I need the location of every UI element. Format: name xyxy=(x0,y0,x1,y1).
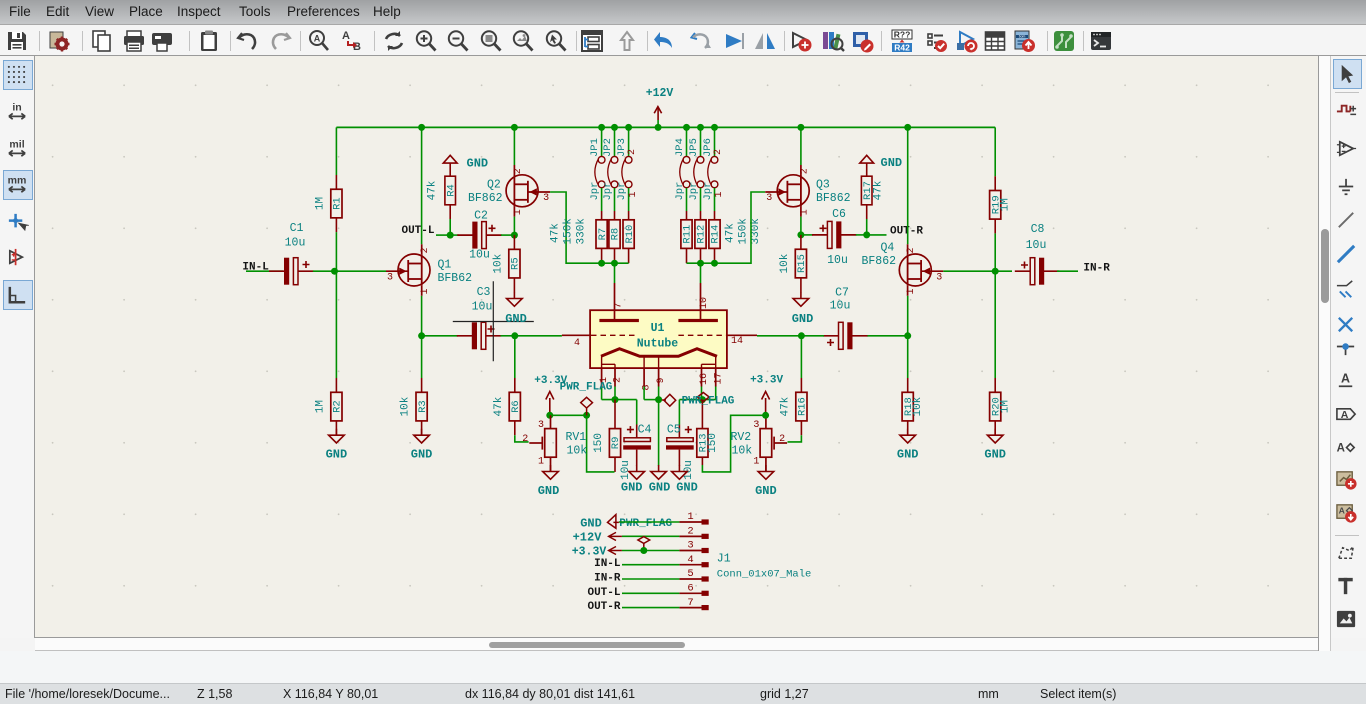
svg-text:2: 2 xyxy=(522,434,528,445)
wire to C2 xyxy=(450,234,458,236)
svg-text:3: 3 xyxy=(766,193,772,204)
svg-text:5: 5 xyxy=(687,568,693,580)
junction xyxy=(511,232,518,239)
wire to gnd xyxy=(658,400,660,466)
svg-text:4: 4 xyxy=(687,554,693,566)
svg-text:GND: GND xyxy=(621,481,643,495)
svg-text:R1: R1 xyxy=(332,197,344,210)
cursor crosshair xyxy=(453,281,534,361)
svg-text:IN-L: IN-L xyxy=(594,558,621,570)
wire rail to JP2 xyxy=(614,127,616,156)
svg-text:9: 9 xyxy=(656,377,667,383)
resistor R3 xyxy=(400,378,429,435)
junction xyxy=(583,412,590,419)
svg-text:Q3: Q3 xyxy=(816,179,830,192)
wire JP6 to resistor xyxy=(714,188,716,211)
transistor Q3 xyxy=(765,165,850,217)
jumper JP6 xyxy=(702,138,718,200)
svg-text:10k: 10k xyxy=(492,253,504,273)
svg-text:OUT-R: OUT-R xyxy=(890,226,923,238)
ground xyxy=(649,465,671,495)
wire to R3 xyxy=(421,336,423,378)
svg-text:RV1: RV1 xyxy=(566,431,587,444)
svg-text:GND: GND xyxy=(326,448,348,462)
svg-text:3: 3 xyxy=(936,272,942,283)
junction xyxy=(904,332,911,339)
svg-text:GND: GND xyxy=(538,484,560,498)
junction xyxy=(611,124,618,131)
svg-text:BF862: BF862 xyxy=(816,192,851,205)
connector J1 Conn_01x07_Male xyxy=(679,511,811,610)
svg-text:47k: 47k xyxy=(550,223,562,243)
junction xyxy=(762,412,769,419)
junction xyxy=(655,124,662,131)
wire to C8 xyxy=(995,270,1012,272)
svg-text:1: 1 xyxy=(628,191,639,197)
svg-text:Q2: Q2 xyxy=(487,179,501,192)
wire JP3 to resistor xyxy=(628,188,630,211)
resistor R18 xyxy=(902,378,924,435)
svg-text:JP5: JP5 xyxy=(688,138,700,157)
svg-text:+3.3V: +3.3V xyxy=(750,374,783,386)
wire JP1 to resistor xyxy=(601,188,603,211)
wire Q3 source down xyxy=(800,217,802,235)
svg-text:C1: C1 xyxy=(290,222,304,235)
capacitor C6 xyxy=(812,208,856,267)
svg-text:R10: R10 xyxy=(624,225,636,244)
svg-text:10k: 10k xyxy=(567,445,588,458)
resistor R7 xyxy=(596,211,609,263)
svg-text:1: 1 xyxy=(753,457,759,468)
transistor Q4 xyxy=(862,242,944,296)
wire Q2 source down xyxy=(513,217,515,236)
wire rail to Q4 xyxy=(907,127,909,244)
svg-text:JP2: JP2 xyxy=(602,138,614,157)
svg-text:C6: C6 xyxy=(832,208,846,221)
ground xyxy=(755,465,777,498)
wire xyxy=(801,335,824,337)
svg-text:A: A xyxy=(1341,409,1349,421)
svg-text:R9: R9 xyxy=(610,437,622,450)
power flag PWR_FLAG xyxy=(662,394,676,406)
wire bus to U1 pin10 xyxy=(700,263,702,283)
svg-text:+12V: +12V xyxy=(646,87,674,100)
wire pin1 down xyxy=(601,387,603,400)
wire to U1 pin4 xyxy=(515,335,562,337)
wire JP bus left xyxy=(602,262,629,264)
svg-text:150k: 150k xyxy=(738,218,750,245)
svg-text:1: 1 xyxy=(714,191,725,197)
svg-text:C8: C8 xyxy=(1031,223,1045,236)
wire pin9 down xyxy=(658,387,660,400)
wire rail to Q1 drain xyxy=(421,127,423,244)
junction xyxy=(418,124,425,131)
svg-text:A: A xyxy=(1337,442,1345,454)
wire xyxy=(644,399,659,401)
wire JP5 to resistor xyxy=(700,188,702,211)
resistor R16 xyxy=(779,378,808,435)
triode U1 Nutube xyxy=(562,283,757,391)
svg-text:GND: GND xyxy=(984,448,1006,462)
wire OUT-L xyxy=(622,592,679,594)
svg-text:1M: 1M xyxy=(1000,198,1012,211)
wire JP2 to resistor xyxy=(614,188,616,211)
svg-text:R11: R11 xyxy=(682,225,694,244)
wire rail to JP3 xyxy=(628,127,630,156)
ground xyxy=(326,429,348,462)
junction xyxy=(640,547,647,554)
wire xyxy=(636,400,638,425)
transistor Q1 xyxy=(386,244,472,296)
wire R9 bottom xyxy=(587,415,615,472)
svg-text:2: 2 xyxy=(513,168,524,174)
wire pin1 xyxy=(619,521,680,523)
svg-text:JP1: JP1 xyxy=(589,138,601,157)
ground xyxy=(538,465,560,498)
resistor R12 xyxy=(695,211,708,263)
wire R4 to OUT-L node xyxy=(449,219,451,235)
junction xyxy=(546,412,553,419)
svg-text:47k: 47k xyxy=(427,180,439,200)
junction xyxy=(697,124,704,131)
svg-text:10k: 10k xyxy=(732,445,753,458)
junction xyxy=(598,124,605,131)
wire pin2 down xyxy=(614,387,616,400)
ground xyxy=(672,465,698,495)
junction xyxy=(699,396,706,403)
svg-text:R15: R15 xyxy=(796,254,808,273)
svg-text:Jpr: Jpr xyxy=(602,182,614,201)
wire R13 to +3.3V xyxy=(702,415,765,472)
wire pin8 down xyxy=(643,387,645,400)
wire xyxy=(550,414,587,416)
svg-text:R42: R42 xyxy=(894,43,910,53)
svg-text:C4: C4 xyxy=(638,423,652,436)
power flag PWR_FLAG xyxy=(560,382,613,416)
wire Q2 gate to JP bus xyxy=(550,192,602,263)
wire rail to R19 xyxy=(994,127,996,176)
junction xyxy=(511,124,518,131)
resistor R6 xyxy=(493,378,522,435)
svg-text:GND: GND xyxy=(411,448,433,462)
wire Q1 source down xyxy=(421,296,423,336)
svg-text:2: 2 xyxy=(713,149,724,155)
power +3.3V xyxy=(534,375,567,416)
junction xyxy=(331,268,338,275)
svg-text:OUT-R: OUT-R xyxy=(587,601,620,613)
junction xyxy=(611,260,618,267)
wire pins to C4 xyxy=(602,399,637,401)
svg-text:in: in xyxy=(12,102,21,114)
power label +12V xyxy=(573,530,622,544)
svg-text:R2: R2 xyxy=(332,400,344,413)
wire R17 down xyxy=(866,219,868,235)
ground xyxy=(505,292,527,326)
svg-text:R16: R16 xyxy=(797,397,809,416)
svg-text:2: 2 xyxy=(627,149,638,155)
jumper JP2 xyxy=(602,138,618,200)
capacitor C2 xyxy=(457,209,501,261)
svg-text:JP4: JP4 xyxy=(674,138,686,157)
svg-text:3: 3 xyxy=(687,540,693,552)
junction xyxy=(697,260,704,267)
resistor R14 xyxy=(709,211,722,263)
junction xyxy=(511,332,518,339)
svg-text:1: 1 xyxy=(513,209,524,215)
svg-text:R??: R?? xyxy=(894,30,911,40)
svg-text:47k: 47k xyxy=(872,180,884,200)
wire to R18 xyxy=(907,336,909,378)
svg-text:IN-R: IN-R xyxy=(1083,262,1110,274)
svg-text:PWR_FLAG: PWR_FLAG xyxy=(682,395,735,407)
wire to Q1 gate xyxy=(335,270,387,272)
svg-text:3: 3 xyxy=(753,420,759,431)
junction xyxy=(992,268,999,275)
resistor R1 xyxy=(314,175,343,232)
capacitor C8 xyxy=(1015,223,1059,285)
svg-text:3: 3 xyxy=(543,193,549,204)
svg-text:A: A xyxy=(342,30,350,42)
junction xyxy=(625,124,632,131)
svg-text:3: 3 xyxy=(387,272,393,283)
wire Q4 gate xyxy=(943,270,995,272)
svg-text:IN-L: IN-L xyxy=(242,261,269,273)
wire xyxy=(501,234,514,236)
wire IN-L xyxy=(622,564,679,566)
resistor R8 xyxy=(609,211,622,263)
svg-text:GND: GND xyxy=(792,312,814,326)
svg-text:10u: 10u xyxy=(469,249,490,262)
svg-text:PWR_FLAG: PWR_FLAG xyxy=(560,382,613,394)
svg-text:4: 4 xyxy=(574,338,580,349)
svg-text:Jpr: Jpr xyxy=(589,182,601,201)
svg-text:10k: 10k xyxy=(400,396,412,416)
svg-text:R8: R8 xyxy=(610,228,622,241)
resistor R10 xyxy=(623,211,636,263)
svg-text:R6: R6 xyxy=(510,400,522,413)
potentiometer RV2 xyxy=(731,415,788,471)
svg-text:OUT-L: OUT-L xyxy=(587,587,620,599)
svg-text:10: 10 xyxy=(699,297,710,309)
wire IN-L stub xyxy=(246,270,283,272)
wire JP4 to resistor xyxy=(686,188,688,211)
svg-text:GND: GND xyxy=(755,484,777,498)
svg-text:Jpr: Jpr xyxy=(616,182,628,201)
wire to R20 xyxy=(994,271,996,378)
wire OUT-R stub xyxy=(867,234,887,236)
power flag PWR_FLAG xyxy=(682,393,735,408)
svg-text:3: 3 xyxy=(538,420,544,431)
wire rail to JP4 xyxy=(686,127,688,156)
svg-text:1: 1 xyxy=(687,511,693,523)
junction xyxy=(655,396,662,403)
svg-text:A: A xyxy=(1339,505,1345,515)
svg-text:R5: R5 xyxy=(510,257,522,270)
svg-text:1M: 1M xyxy=(314,400,326,413)
ground xyxy=(792,292,814,326)
wire xyxy=(313,270,335,272)
svg-text:1: 1 xyxy=(906,288,917,294)
svg-text:R7: R7 xyxy=(597,228,609,241)
junction xyxy=(711,124,718,131)
svg-text:BF862: BF862 xyxy=(862,255,897,268)
junction xyxy=(798,332,805,339)
wire +12V rail xyxy=(336,126,995,128)
jumper JP4 xyxy=(674,138,690,200)
svg-text:R14: R14 xyxy=(710,225,722,244)
svg-text:BFB62: BFB62 xyxy=(438,272,473,285)
wire to R6 xyxy=(514,336,516,378)
svg-text:10k: 10k xyxy=(912,396,924,416)
wire Q4 source down xyxy=(907,296,909,336)
svg-text:OUT-L: OUT-L xyxy=(401,225,434,237)
wire OUT-L stub xyxy=(436,234,450,236)
svg-text:Q4: Q4 xyxy=(881,242,895,255)
svg-text:+12V: +12V xyxy=(573,530,603,544)
jumper JP1 xyxy=(589,138,605,200)
wire rail to JP6 xyxy=(714,127,716,156)
svg-text:6: 6 xyxy=(687,583,693,595)
wire xyxy=(501,335,515,337)
svg-text:IN-R: IN-R xyxy=(594,573,621,585)
resistor R13 xyxy=(697,400,719,465)
wire to C6 xyxy=(801,234,813,236)
potentiometer RV1 xyxy=(522,415,587,471)
wire to C3 xyxy=(422,335,458,337)
wire OUT-R xyxy=(622,607,679,609)
svg-text:mil: mil xyxy=(9,139,24,151)
svg-text:Q1: Q1 xyxy=(438,259,452,272)
wire bus to U1 pin7 xyxy=(614,263,616,283)
svg-text:47k: 47k xyxy=(779,396,791,416)
svg-text:17: 17 xyxy=(713,372,724,384)
svg-text:J1: J1 xyxy=(717,553,731,566)
wire pins to C5 xyxy=(679,399,715,401)
junction xyxy=(598,260,605,267)
svg-text:R3: R3 xyxy=(417,400,429,413)
svg-text:GND: GND xyxy=(649,481,671,495)
svg-text:Conn_01x07_Male: Conn_01x07_Male xyxy=(717,569,812,581)
resistor R2 xyxy=(314,378,343,435)
svg-text:A: A xyxy=(1341,371,1350,385)
svg-text:10u: 10u xyxy=(827,254,848,267)
svg-text:GND: GND xyxy=(676,481,698,495)
svg-text:10u: 10u xyxy=(472,301,493,314)
svg-text:10k: 10k xyxy=(779,253,791,273)
svg-text:GND: GND xyxy=(580,516,602,530)
junction xyxy=(904,124,911,131)
svg-text:47k: 47k xyxy=(725,223,737,243)
svg-text:10u: 10u xyxy=(620,460,632,480)
junction xyxy=(447,232,454,239)
junction xyxy=(797,231,804,238)
wire C7 to U1 pin14 xyxy=(757,335,801,337)
svg-text:GND: GND xyxy=(881,156,903,170)
svg-text:47k: 47k xyxy=(493,396,505,416)
wire IN-R xyxy=(622,578,679,580)
svg-text:2: 2 xyxy=(613,377,624,383)
svg-text:bom: bom xyxy=(1019,35,1026,39)
wire rail to Q2 xyxy=(513,127,515,165)
resistor R5 xyxy=(492,235,521,292)
wire pin16 down xyxy=(701,387,703,400)
ground xyxy=(621,465,645,495)
junction xyxy=(711,260,718,267)
wire JP bus right xyxy=(687,192,766,263)
wire R16 to RV2 wiper xyxy=(788,435,802,442)
capacitor C7 xyxy=(823,286,867,349)
junction xyxy=(863,231,870,238)
svg-text:U1: U1 xyxy=(651,322,665,335)
svg-text:10u: 10u xyxy=(830,300,851,313)
svg-text:GND: GND xyxy=(897,448,919,462)
jumper JP3 xyxy=(616,138,632,200)
wire R1 to IN-L node xyxy=(335,232,337,271)
transistor Q2 xyxy=(468,165,550,217)
wire pin17 down xyxy=(715,387,717,400)
resistor R19 xyxy=(990,176,1012,233)
svg-text:2: 2 xyxy=(799,168,810,174)
svg-text:C3: C3 xyxy=(477,286,491,299)
wire to R16 xyxy=(800,336,802,378)
ground xyxy=(984,429,1006,462)
capacitor C3 xyxy=(457,286,501,349)
svg-text:Jpr: Jpr xyxy=(702,182,714,201)
svg-text:PWR_FLAG: PWR_FLAG xyxy=(619,518,672,530)
svg-text:10u: 10u xyxy=(1026,239,1047,252)
resistor R11 xyxy=(681,211,694,263)
svg-text:2: 2 xyxy=(906,247,917,253)
svg-text:R12: R12 xyxy=(696,225,708,244)
svg-text:150: 150 xyxy=(593,433,605,453)
svg-text:GND: GND xyxy=(505,312,527,326)
svg-text:10u: 10u xyxy=(285,237,306,250)
svg-text:150: 150 xyxy=(707,433,719,453)
svg-text:mm: mm xyxy=(8,175,27,187)
power label GND xyxy=(580,515,619,531)
junction xyxy=(612,396,619,403)
junction xyxy=(683,124,690,131)
power flag PWR_FLAG xyxy=(638,537,650,551)
wire R19 down xyxy=(994,233,996,271)
wire xyxy=(856,234,867,236)
svg-text:2: 2 xyxy=(779,434,785,445)
svg-text:1M: 1M xyxy=(314,197,326,210)
ground xyxy=(897,429,919,462)
power label +3.3V xyxy=(572,545,622,558)
wire rail to JP1 xyxy=(601,127,603,156)
resistor R15 xyxy=(779,235,808,292)
wire to C7 xyxy=(867,335,908,337)
power +3.3V xyxy=(750,374,783,415)
svg-text:RV2: RV2 xyxy=(731,431,752,444)
wire pin3 xyxy=(622,550,680,552)
svg-text:16: 16 xyxy=(699,373,710,385)
svg-text:7: 7 xyxy=(687,597,693,609)
wire C8 to IN-R xyxy=(1057,270,1078,272)
capacitor C4 xyxy=(620,400,651,480)
svg-text:+3.3V: +3.3V xyxy=(572,545,607,558)
power +12V xyxy=(646,87,674,127)
capacitor C1 xyxy=(269,222,313,285)
svg-text:1M: 1M xyxy=(1000,400,1012,413)
svg-text:Jpr: Jpr xyxy=(674,182,686,201)
wire rail to Q3 xyxy=(800,127,802,165)
svg-text:Jpr: Jpr xyxy=(688,182,700,201)
svg-text:1: 1 xyxy=(420,288,431,294)
wire rail to JP5 xyxy=(700,127,702,156)
resistor R4 xyxy=(427,163,458,219)
